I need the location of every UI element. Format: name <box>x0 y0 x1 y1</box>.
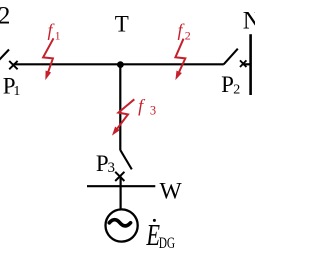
svg-text:2: 2 <box>185 29 191 43</box>
fault f1 lightning bolt <box>43 38 53 72</box>
svg-text:DG: DG <box>159 235 176 252</box>
svg-text:2: 2 <box>233 82 240 97</box>
svg-text:3: 3 <box>108 160 116 176</box>
svg-text:f: f <box>138 96 146 116</box>
wire: vertical from P3 to generator <box>119 176 121 209</box>
bus N bar <box>249 34 252 95</box>
fault f3 lightning bolt <box>117 99 134 128</box>
bus W bar <box>87 185 155 187</box>
generator DG circle <box>106 209 138 241</box>
breaker P1 switch blade <box>0 50 9 65</box>
breaker P3 switch blade <box>120 150 131 169</box>
breaker P2 X mark <box>240 60 246 67</box>
svg-text:2: 2 <box>0 2 10 29</box>
wire: stub from P2 to bus N <box>243 63 251 65</box>
generator sine wave <box>109 220 130 226</box>
svg-text:1: 1 <box>13 84 20 99</box>
svg-text:3: 3 <box>150 103 156 117</box>
svg-text:N: N <box>243 8 255 35</box>
node T junction dot <box>117 61 124 68</box>
svg-text:1: 1 <box>55 31 61 43</box>
breaker P2 switch blade <box>224 49 238 65</box>
breaker P1 X mark <box>9 61 17 69</box>
svg-text:W: W <box>160 178 183 204</box>
svg-text:T: T <box>115 12 129 37</box>
wire: main horizontal feeder M2-T-N <box>13 63 223 65</box>
breaker P3 X mark <box>115 172 124 181</box>
wire: vertical branch from node T <box>119 63 121 150</box>
fault f2 lightning bolt <box>175 39 185 72</box>
svg-text:P: P <box>221 72 234 97</box>
label E_DG <box>146 217 161 251</box>
